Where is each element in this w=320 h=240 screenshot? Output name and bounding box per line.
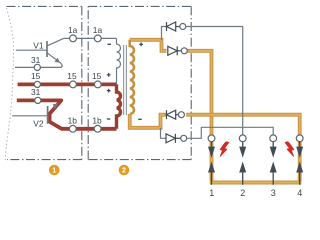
secondary winding L3 (orange) xyxy=(130,40,134,114)
spark gap plug 4 xyxy=(296,135,303,185)
node circle 1b left xyxy=(69,125,76,132)
V1 emitter arrow xyxy=(54,58,60,63)
svg-text:15: 15 xyxy=(92,71,102,81)
box 2 border (ignition coil unit) xyxy=(88,6,191,159)
svg-text:1: 1 xyxy=(52,166,56,175)
node circle terminal 31 upper xyxy=(34,64,40,70)
node circle 1a right xyxy=(94,35,101,42)
svg-text:2: 2 xyxy=(240,188,245,198)
svg-text:15: 15 xyxy=(31,71,41,81)
node circle after diode V4 xyxy=(181,48,187,54)
HT bus bar (orange) xyxy=(210,181,302,185)
polarity mark - secondary xyxy=(138,118,142,120)
node circle 15 mid xyxy=(70,81,77,88)
spark flash 1 (red bolt) xyxy=(220,142,229,157)
svg-text:2: 2 xyxy=(122,166,126,175)
svg-text:V1: V1 xyxy=(33,40,44,50)
svg-text:1a: 1a xyxy=(93,25,103,35)
wire: terminal 31 lower run through V2 emitter-collector (red) xyxy=(17,100,117,128)
transformer core xyxy=(124,45,127,115)
svg-text:4: 4 xyxy=(297,188,302,198)
node circle terminal 15 left xyxy=(34,81,40,87)
spark gap plug 2 xyxy=(239,135,246,185)
diode V6 (to plug 3), pointing right xyxy=(161,128,181,143)
svg-text:1b: 1b xyxy=(68,115,78,125)
polarity mark - primary lower xyxy=(107,118,111,120)
wire: 1a line (grey) xyxy=(64,37,117,39)
diode V5 (to plug 4), pointing left xyxy=(167,110,179,119)
V2 emitter arrow xyxy=(52,103,58,108)
transistor V2 xyxy=(12,106,47,124)
wire: diode output to plug 2 (grey) xyxy=(186,27,243,136)
wire: diode output to plug 1 (orange) xyxy=(187,51,211,181)
node circle after diode V5 xyxy=(178,112,184,118)
node circle after diode V6 xyxy=(181,135,187,141)
svg-text:3: 3 xyxy=(271,188,276,198)
svg-text:31: 31 xyxy=(31,55,41,65)
spark gap plug 1 xyxy=(208,135,215,185)
primary winding L1 (grey, upper half) xyxy=(117,38,121,84)
svg-text:1: 1 xyxy=(209,188,214,198)
svg-text:31: 31 xyxy=(31,87,41,97)
spark flash 2 (red bolt) xyxy=(285,142,294,157)
node circle terminal 31 lower xyxy=(35,97,41,103)
svg-text:V2: V2 xyxy=(33,118,44,128)
wire: diode output to plug 4 (orange) xyxy=(186,115,300,181)
svg-text:1b: 1b xyxy=(92,115,102,125)
badge 2 (unit number) xyxy=(119,165,130,176)
wire: terminal 31 upper run (grey) xyxy=(15,65,62,67)
polarity mark + secondary xyxy=(139,42,143,46)
primary winding L2 (red, lower half) xyxy=(117,84,121,128)
polarity mark + primary lower xyxy=(107,89,111,93)
torn paper edge xyxy=(5,8,13,160)
transistor V1 xyxy=(16,38,64,66)
polarity mark + primary upper xyxy=(107,73,111,77)
box 1 border (trigger box unit) xyxy=(7,6,82,159)
wire: diode output to plug 3 (grey) xyxy=(187,127,274,138)
node circle 15 right xyxy=(94,81,101,88)
wire: terminal 15 feed (red) xyxy=(18,83,117,87)
wire: secondary + lead to diodes (orange) xyxy=(130,40,167,51)
node circle after diode V3 xyxy=(180,24,186,30)
badge 1 (unit number) xyxy=(49,165,60,176)
svg-text:15: 15 xyxy=(67,71,77,81)
polarity mark - primary upper xyxy=(108,43,112,45)
node circle 1b right xyxy=(94,125,101,132)
spark gap plug 3 xyxy=(270,135,277,185)
diode V4 (to plug 1), pointing right xyxy=(168,46,182,55)
node circle 1a left xyxy=(70,35,77,42)
wire: secondary - lead to diodes (orange) xyxy=(130,114,166,128)
svg-text:1a: 1a xyxy=(68,25,78,35)
diode V3 upper (to plug 2), pointing left xyxy=(162,22,180,40)
